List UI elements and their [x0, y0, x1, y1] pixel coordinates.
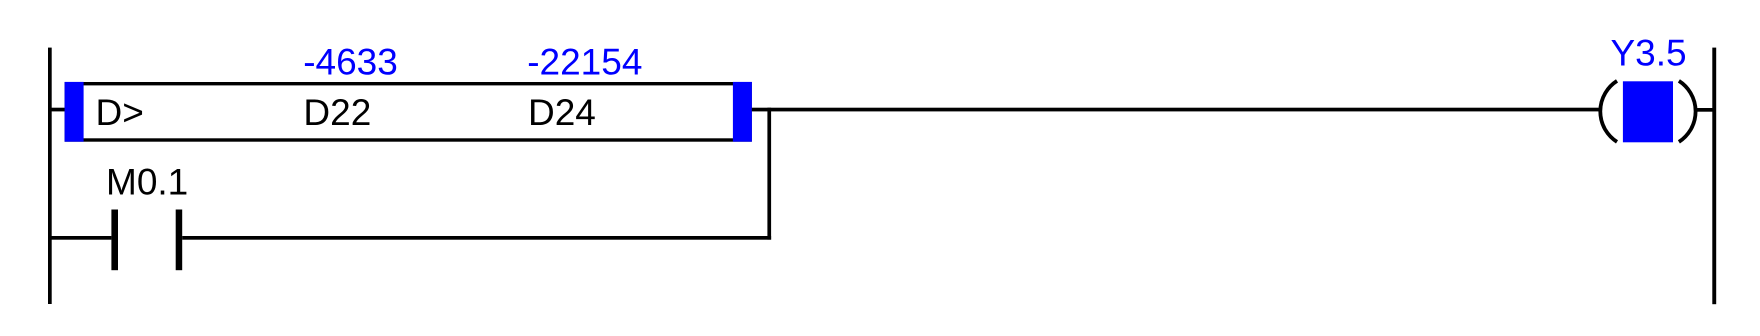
wire: comparison output to coil — [752, 108, 1601, 112]
svg-text:-22154: -22154 — [527, 41, 642, 82]
svg-text:M0.1: M0.1 — [106, 161, 188, 202]
coil Y3.5 left parenthesis — [1600, 81, 1617, 142]
svg-text:D22: D22 — [303, 92, 371, 133]
svg-text:D24: D24 — [528, 92, 596, 133]
wire: branch junction vertical segment — [767, 108, 771, 240]
left power rail — [48, 48, 52, 304]
right power rail — [1712, 48, 1716, 305]
wire: branch from left rail to contact M0.1 — [51, 236, 111, 240]
wire: coil to right rail — [1695, 108, 1713, 112]
energized output power-flow marker (right blue block) — [733, 82, 752, 142]
svg-text:D>: D> — [96, 92, 144, 133]
svg-text:-4633: -4633 — [303, 41, 398, 82]
energized input power-flow marker (left blue block) — [65, 82, 84, 142]
coil Y3.5 energized marker (blue square) — [1623, 81, 1673, 142]
contact M0.1 left bar — [111, 210, 118, 271]
wire: left rail to comparison contact input — [51, 108, 66, 112]
wire: contact M0.1 to branch junction — [182, 236, 771, 240]
svg-text:Y3.5: Y3.5 — [1611, 33, 1687, 74]
coil Y3.5 right parenthesis — [1679, 81, 1696, 142]
comparison contact box U1 (D> D22 D24) — [66, 84, 750, 140]
contact M0.1 right bar — [176, 210, 183, 271]
